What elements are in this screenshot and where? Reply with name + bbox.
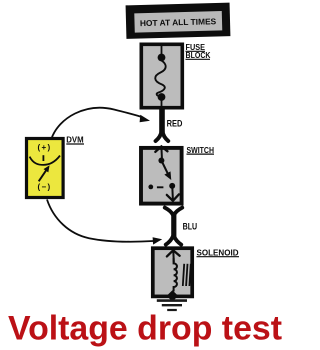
svg-text:SOLENOID: SOLENOID [197, 248, 239, 257]
test lead arrow to RED node [52, 108, 151, 139]
fuse bottom lead wire [161, 97, 163, 108]
fuse terminal dot bottom [158, 93, 166, 101]
switch contact dot upper [158, 158, 164, 164]
switch box [141, 148, 182, 204]
label SOLENOID [197, 248, 240, 257]
fuse terminal dot top [158, 54, 166, 62]
svg-text:BLU: BLU [183, 221, 198, 232]
label FUSE BLOCK [186, 43, 211, 60]
DVM meter box [27, 139, 64, 198]
svg-text:SWITCH: SWITCH [187, 146, 215, 155]
switch output arrow [167, 187, 179, 201]
svg-text:(−): (−) [38, 183, 52, 192]
fuse block box [141, 44, 182, 107]
svg-text:(+): (+) [38, 143, 52, 152]
switch open contact dot left [148, 185, 153, 190]
fuse element squiggle [155, 61, 165, 97]
svg-text:BLOCK: BLOCK [186, 51, 211, 60]
solenoid input arrow [167, 250, 180, 262]
svg-text:DVM: DVM [66, 136, 83, 145]
svg-text:Voltage drop test: Voltage drop test [8, 310, 283, 348]
switch contact dot lower [169, 183, 175, 189]
wire BLU [171, 213, 176, 237]
connector BLU lower half [166, 236, 181, 244]
solenoid box [153, 248, 192, 296]
connector RED male half [156, 131, 169, 141]
connector BLU upper half [165, 208, 182, 215]
DVM meter scale [30, 155, 60, 165]
solenoid coil winding [174, 258, 177, 292]
switch open contact dash [157, 186, 164, 188]
test lead arrow to BLU node [47, 200, 162, 245]
switch blade arrow [162, 162, 174, 182]
label SWITCH [187, 146, 215, 155]
svg-text:RED: RED [167, 118, 183, 129]
solenoid terminal diamond dot [167, 290, 179, 301]
power source box HOT AT ALL TIMES [126, 3, 231, 39]
solenoid core lines [183, 264, 191, 286]
label DVM [66, 136, 84, 145]
wire RED [159, 108, 165, 133]
DVM needle [39, 164, 52, 182]
ground [157, 301, 187, 310]
svg-text:HOT AT ALL TIMES: HOT AT ALL TIMES [140, 16, 217, 28]
switch input arrow [155, 146, 167, 158]
fuse top lead wire [161, 44, 163, 55]
